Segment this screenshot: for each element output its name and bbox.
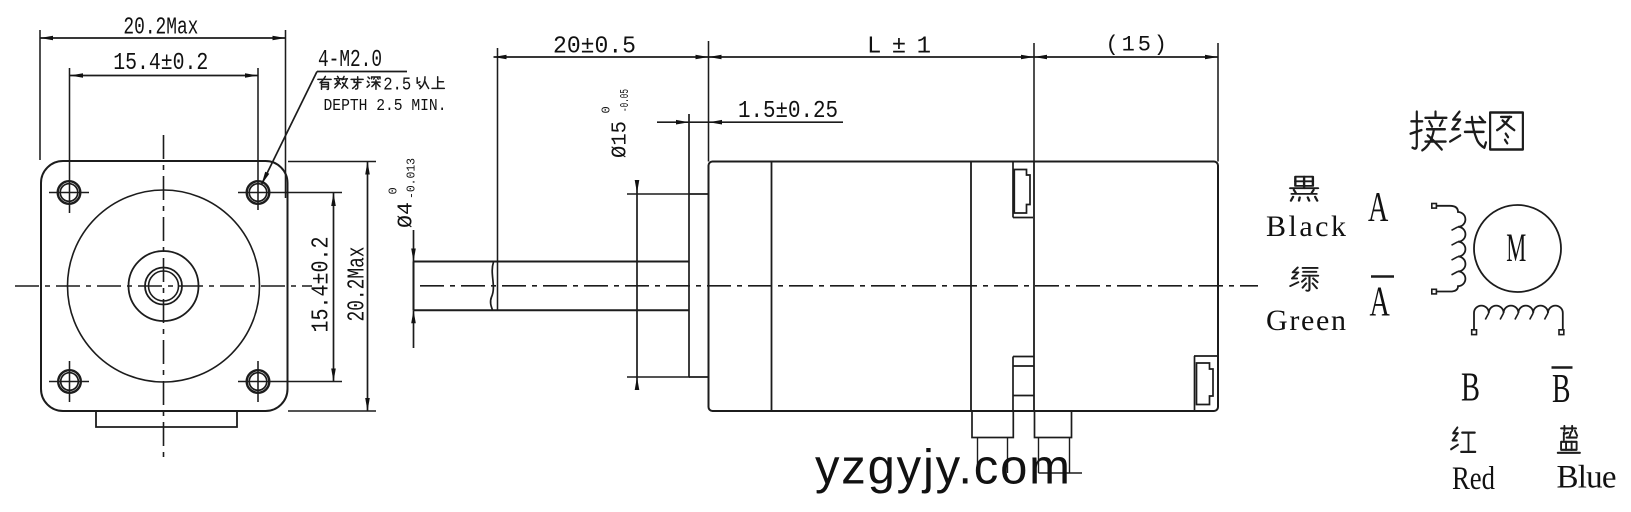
svg-text:4-M2.0: 4-M2.0	[318, 47, 382, 74]
svg-text:(15): (15)	[1106, 33, 1168, 58]
svg-text:yzgyjy.com: yzgyjy.com	[815, 441, 1070, 495]
svg-text:-0.05: -0.05	[618, 89, 632, 112]
svg-text:Ø15: Ø15	[610, 121, 633, 158]
svg-text:1.5±0.25: 1.5±0.25	[738, 98, 838, 125]
svg-text:0: 0	[600, 106, 614, 113]
svg-text:Ø4: Ø4	[396, 202, 419, 228]
svg-text:20±0.5: 20±0.5	[553, 34, 636, 61]
svg-text:0: 0	[387, 187, 401, 194]
svg-text:DEPTH 2.5 MIN.: DEPTH 2.5 MIN.	[324, 97, 447, 116]
svg-text:B: B	[1461, 364, 1480, 410]
svg-text:A: A	[1368, 185, 1389, 231]
svg-text:20.2Max: 20.2Max	[123, 15, 198, 42]
svg-text:A: A	[1370, 280, 1391, 326]
svg-text:15.4±0.2: 15.4±0.2	[309, 237, 336, 333]
svg-text:B: B	[1552, 365, 1571, 411]
svg-text:Red: Red	[1452, 461, 1495, 497]
svg-text:Green: Green	[1266, 304, 1346, 337]
svg-text:Blue: Blue	[1557, 460, 1617, 496]
svg-text:2.5: 2.5	[383, 76, 411, 96]
svg-text:Black: Black	[1266, 210, 1346, 243]
svg-text:-0.013: -0.013	[405, 158, 419, 199]
svg-text:20.2Max: 20.2Max	[345, 247, 372, 322]
svg-text:15.4±0.2: 15.4±0.2	[113, 50, 208, 77]
svg-text:M: M	[1506, 225, 1526, 270]
svg-text:L±1: L±1	[867, 34, 931, 61]
